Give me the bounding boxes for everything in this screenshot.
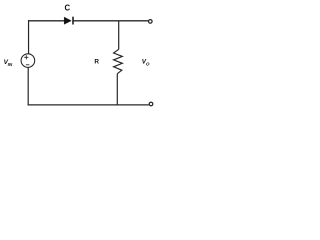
wire: left vertical from top corner down to source top xyxy=(28,20,30,54)
svg-text:O: O xyxy=(146,62,150,67)
label C (diode designator) xyxy=(65,3,71,12)
output terminal: bottom open circle xyxy=(149,102,153,106)
diode C: anode triangle xyxy=(64,17,71,24)
svg-text:R: R xyxy=(94,59,99,66)
label R xyxy=(94,59,99,66)
svg-text:C: C xyxy=(65,3,71,12)
svg-text:IN: IN xyxy=(8,62,13,67)
label V_IN xyxy=(4,59,13,67)
output terminal: top open circle xyxy=(149,20,153,24)
resistor R (zigzag) xyxy=(114,49,123,74)
wire: left vertical from source bottom down to bottom wire xyxy=(27,67,29,105)
wire: top horizontal from diode cathode to output terminal xyxy=(73,20,148,22)
wire: bottom horizontal from left corner to output terminal xyxy=(28,104,149,106)
voltage source V_IN (circle with + and -) xyxy=(21,54,35,68)
wire: top-left horizontal segment from corner to diode anode xyxy=(28,20,65,22)
label V_O xyxy=(142,59,150,67)
diode C: cathode bar xyxy=(72,17,74,25)
wire: vertical from top-wire junction down to resistor top xyxy=(118,21,120,50)
wire: vertical from resistor bottom down to bottom wire xyxy=(116,74,118,105)
